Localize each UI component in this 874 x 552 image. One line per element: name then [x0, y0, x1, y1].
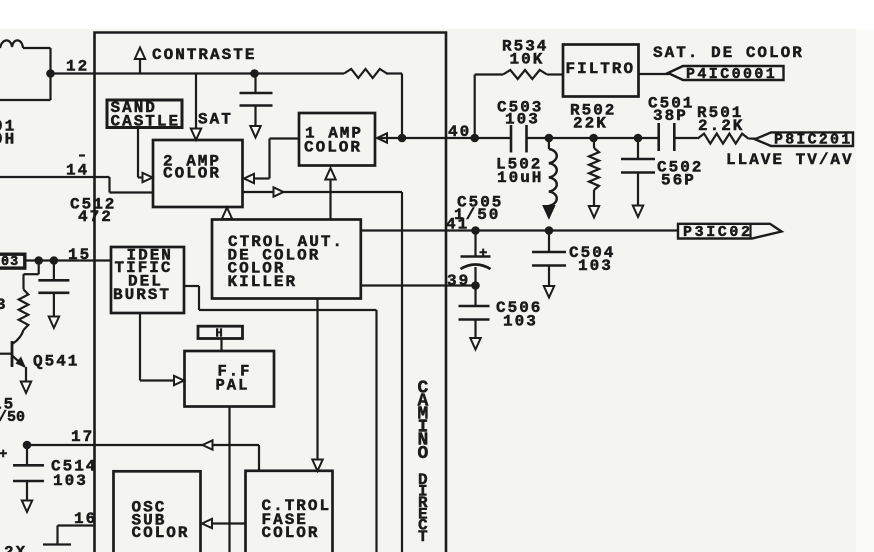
svg-text:P4IC0001: P4IC0001 — [686, 66, 777, 83]
svg-text:P3IC02: P3IC02 — [683, 224, 753, 241]
svg-text:CONTRASTE: CONTRASTE — [152, 46, 256, 64]
svg-text:38P: 38P — [653, 107, 688, 125]
svg-text:P8IC201: P8IC201 — [774, 132, 852, 149]
svg-text:BURST: BURST — [113, 286, 171, 304]
svg-text:103: 103 — [53, 472, 88, 490]
svg-text:472: 472 — [78, 208, 113, 226]
svg-text:COLOR: COLOR — [163, 165, 221, 183]
svg-text:KILLER: KILLER — [228, 273, 298, 291]
svg-text:SAT: SAT — [198, 111, 233, 129]
svg-text:COLOR: COLOR — [132, 524, 190, 542]
svg-text:1/50: 1/50 — [454, 206, 500, 224]
svg-text:03: 03 — [1, 255, 19, 270]
svg-text:COLOR: COLOR — [304, 138, 362, 156]
svg-text:SAT. DE COLOR: SAT. DE COLOR — [653, 44, 804, 62]
svg-text:10uH: 10uH — [497, 169, 543, 187]
svg-text:O: O — [418, 444, 431, 464]
svg-text:3: 3 — [0, 296, 8, 314]
svg-text:10K: 10K — [510, 51, 545, 69]
svg-text:103: 103 — [503, 313, 538, 331]
svg-text:CASTLE: CASTLE — [111, 113, 181, 131]
svg-text:+: + — [0, 447, 7, 463]
svg-text:FILTRO: FILTRO — [566, 60, 636, 78]
svg-text:T: T — [418, 528, 430, 546]
svg-text:PAL: PAL — [216, 376, 250, 394]
svg-text:LLAVE TV/AV: LLAVE TV/AV — [726, 151, 854, 169]
svg-text:103: 103 — [578, 257, 613, 275]
svg-text:+: + — [479, 246, 487, 262]
svg-text:/50: /50 — [0, 409, 25, 426]
svg-text:2X: 2X — [4, 544, 27, 552]
svg-text:103: 103 — [505, 111, 540, 129]
svg-text:0H: 0H — [0, 131, 16, 149]
svg-text:COLOR: COLOR — [262, 524, 320, 542]
svg-text:12: 12 — [66, 58, 89, 76]
svg-text:22K: 22K — [573, 115, 608, 133]
svg-text:Q541: Q541 — [33, 353, 79, 371]
svg-text:39: 39 — [447, 272, 470, 290]
svg-text:17: 17 — [71, 428, 94, 446]
svg-text:2.2K: 2.2K — [698, 117, 744, 135]
svg-text:56P: 56P — [661, 172, 696, 190]
